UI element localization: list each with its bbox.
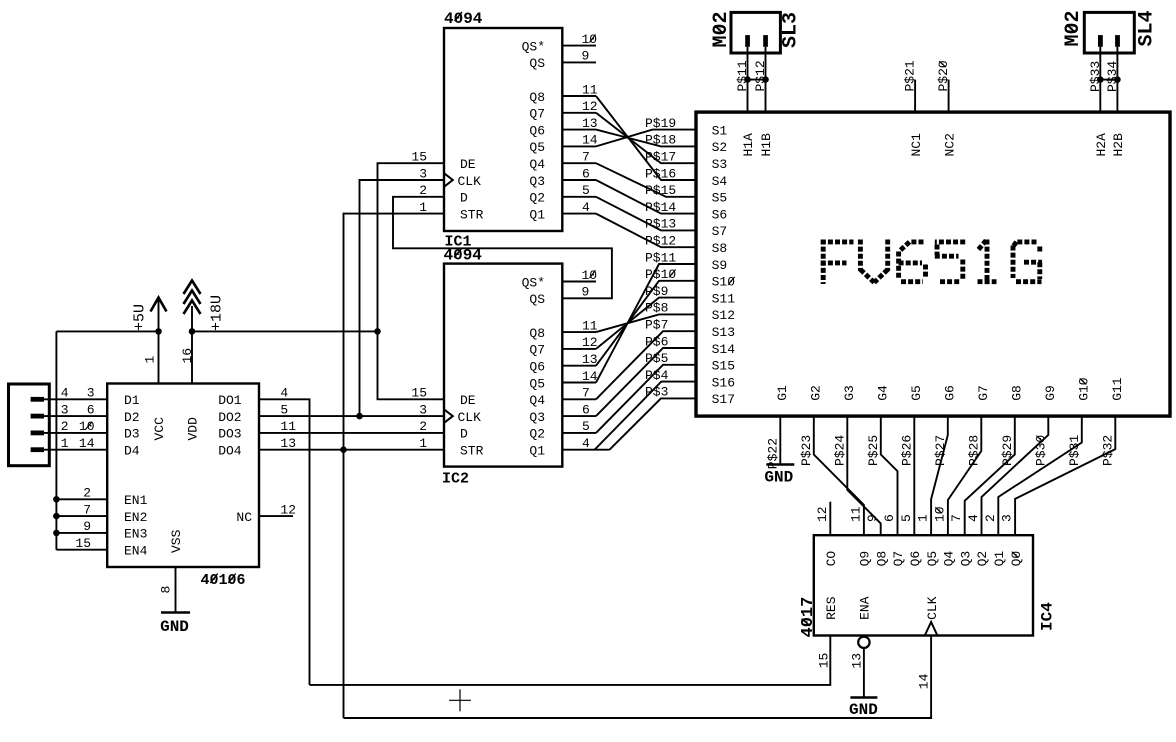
svg-text:4: 4 <box>61 386 69 401</box>
svg-text:P$25: P$25 <box>866 435 881 466</box>
svg-text:P$18: P$18 <box>645 133 676 148</box>
svg-text:EN4: EN4 <box>124 544 148 559</box>
wire display G6 to 4017 Q5 <box>931 416 948 535</box>
+5V arrow symbol <box>151 298 167 312</box>
svg-text:S6: S6 <box>712 207 728 222</box>
svg-text:RES: RES <box>824 596 839 620</box>
svg-text:P$8: P$8 <box>645 301 668 316</box>
svg-text:Q6: Q6 <box>529 360 545 375</box>
display pin H1B (wire from SL3) <box>765 47 767 112</box>
wire IC1 Q8 to S4 (P$16) <box>596 96 696 180</box>
svg-text:P$31: P$31 <box>1067 435 1082 466</box>
svg-text:2: 2 <box>61 419 69 434</box>
ground symbol bar (40106) <box>161 611 190 614</box>
IC2 pin 11 stub (Q8) <box>562 331 596 333</box>
svg-text:EN2: EN2 <box>124 510 147 525</box>
svg-text:Q7: Q7 <box>891 551 906 567</box>
wire connector J1 pin to 40106 D4 <box>44 449 107 451</box>
wire +5V to VCC pin 1 <box>158 298 160 384</box>
IC1 pin 6 stub (Q3) <box>562 179 596 181</box>
junction dot P$11 <box>744 76 751 83</box>
wire +5V to EN1-EN4 (vertical) <box>55 331 57 549</box>
IC1 pin 13 stub (Q6) <box>562 129 596 131</box>
svg-text:5: 5 <box>582 183 590 198</box>
svg-text:4: 4 <box>966 514 981 522</box>
wire IC1 Q7 to S3 (P$17) <box>596 113 696 163</box>
svg-text:GND: GND <box>849 701 878 719</box>
svg-text:P$16: P$16 <box>645 166 676 181</box>
connector SL4 M02 slashed zero <box>1067 25 1076 33</box>
svg-text:4: 4 <box>582 436 590 451</box>
wire IC1 Q6 to S2 (P$18) <box>596 130 696 147</box>
wire IC2 Q7 to S11 (P$9) <box>596 298 696 349</box>
svg-text:Q8: Q8 <box>874 551 889 567</box>
svg-text:D2: D2 <box>124 410 140 425</box>
svg-text:Q3: Q3 <box>529 174 545 189</box>
svg-text:16: 16 <box>180 348 195 364</box>
IC2 pin 10 slashed zero <box>590 270 596 278</box>
wire display G11 to 4017 Q0 <box>1015 416 1115 535</box>
svg-text:Q1: Q1 <box>529 207 545 222</box>
svg-text:GND: GND <box>160 618 189 636</box>
wire 40106 DO1 to 4017 RES <box>259 399 310 685</box>
wire IC2 Q4 to S13 (P$7) <box>596 331 696 399</box>
svg-text:P$32: P$32 <box>1100 435 1115 466</box>
svg-text:P$21: P$21 <box>903 60 918 91</box>
4017 pin 12 stub (CO) <box>829 502 831 536</box>
svg-text:P$7: P$7 <box>645 318 668 333</box>
svg-text:Q5: Q5 <box>925 551 940 567</box>
svg-text:D: D <box>460 427 468 442</box>
svg-text:P$24: P$24 <box>832 435 847 466</box>
svg-text:NC: NC <box>236 510 252 525</box>
svg-text:H1B: H1B <box>759 133 774 157</box>
svg-text:IC2: IC2 <box>442 471 469 488</box>
IC4 4017 slashed zero <box>802 619 811 626</box>
IC2 pin 13 stub (Q6) <box>562 365 596 367</box>
wire IC1 Q1 to S8 (P$12) <box>596 214 696 248</box>
connector J1 pin bar 1 <box>31 397 44 402</box>
display value FV651G (dot matrix) <box>821 240 1042 285</box>
wire IC1 Q4 to S5 (P$15) <box>596 163 696 197</box>
svg-text:IC4: IC4 <box>1039 602 1057 631</box>
svg-text:9: 9 <box>865 514 880 522</box>
svg-text:10: 10 <box>582 32 598 47</box>
svg-text:Q2: Q2 <box>529 191 545 206</box>
jumper wire P$33-P$34 <box>1100 79 1117 81</box>
svg-text:S17: S17 <box>712 392 735 407</box>
wire IC1 Q3 to S6 (P$14) <box>596 180 696 214</box>
svg-text:H2B: H2B <box>1111 133 1126 157</box>
svg-text:H1A: H1A <box>741 133 756 157</box>
svg-text:M02: M02 <box>710 11 733 47</box>
svg-text:Q4: Q4 <box>529 393 545 408</box>
connector SL4 pin bar 1 <box>1098 35 1103 47</box>
svg-text:P$4: P$4 <box>645 368 669 383</box>
svg-text:DO3: DO3 <box>218 427 241 442</box>
svg-text:G4: G4 <box>876 385 891 401</box>
svg-text:11: 11 <box>280 419 296 434</box>
svg-text:DO1: DO1 <box>218 393 242 408</box>
Q0 slashed zero (vertical) <box>1012 552 1019 558</box>
svg-text:P$19: P$19 <box>645 116 676 131</box>
svg-text:STR: STR <box>460 207 484 222</box>
junction dot EN1 <box>53 496 60 503</box>
svg-text:11: 11 <box>582 318 598 333</box>
svg-text:G2: G2 <box>809 385 824 401</box>
svg-text:P$3: P$3 <box>645 385 668 400</box>
svg-text:G7: G7 <box>976 385 991 401</box>
IC2 pin 7 stub (Q4) <box>562 398 596 400</box>
junction dot EN3 <box>53 530 60 537</box>
svg-text:ENA: ENA <box>858 596 873 620</box>
G10 slashed zero (vertical) <box>1080 378 1087 384</box>
svg-text:8: 8 <box>158 586 173 594</box>
svg-text:S4: S4 <box>712 174 728 189</box>
svg-text:5: 5 <box>582 419 590 434</box>
svg-text:10: 10 <box>932 506 947 522</box>
wire IC2 Q3 to S14 (P$6) <box>596 348 696 416</box>
svg-text:SL3: SL3 <box>780 12 803 48</box>
wire IC2 Q6 to S10 (P$10) <box>596 281 696 366</box>
40106 pin 12 stub (NC) <box>259 515 293 517</box>
IC2 pin 6 stub (Q3) <box>562 415 596 417</box>
wire IC2 Q1 to S16 (P$4) <box>595 382 696 450</box>
svg-text:P$6: P$6 <box>645 334 668 349</box>
svg-text:CO: CO <box>824 551 839 567</box>
svg-text:4: 4 <box>582 200 590 215</box>
svg-text:P$33: P$33 <box>1088 61 1103 92</box>
svg-text:4094: 4094 <box>444 247 483 265</box>
svg-text:13: 13 <box>849 653 864 669</box>
svg-text:4: 4 <box>280 386 288 401</box>
connector SL3 pin bar 2 <box>763 35 768 47</box>
svg-text:9: 9 <box>582 49 590 64</box>
IC U1 4094 shift register box (IC1) <box>444 28 562 231</box>
IC2 pin 5 stub (Q2) <box>562 432 596 434</box>
IC2 CLK clock wedge <box>444 409 453 423</box>
svg-text:9: 9 <box>83 519 91 534</box>
svg-text:P$29: P$29 <box>1000 435 1015 466</box>
svg-text:Q8: Q8 <box>529 326 545 341</box>
svg-text:14: 14 <box>917 673 932 689</box>
svg-text:1: 1 <box>419 200 427 215</box>
wire display G10 to 4017 Q1 <box>998 416 1082 535</box>
svg-text:STR: STR <box>460 444 484 459</box>
P$20 slashed zero (vertical) <box>939 61 946 67</box>
ground symbol bar (4017 ENA) <box>850 696 877 699</box>
wire EN chain to EN4 <box>56 549 107 551</box>
wire IC2 Q2 to S15 (P$5) <box>596 365 696 433</box>
svg-text:DO2: DO2 <box>218 410 241 425</box>
svg-text:NC1: NC1 <box>909 133 924 157</box>
svg-text:NC2: NC2 <box>942 133 957 156</box>
wire +18V to IC2 DE (pin 15) <box>378 331 445 399</box>
IC1 pin 4 stub (Q1) <box>562 213 596 215</box>
IC1 pin 14 stub (Q5) <box>562 145 596 147</box>
svg-text:SL4: SL4 <box>1136 10 1159 46</box>
jumper wire P$11-P$12 <box>748 79 766 81</box>
svg-text:1: 1 <box>916 514 931 522</box>
wire display G9 to 4017 Q2 <box>982 416 1049 535</box>
sheet origin cross <box>449 699 471 701</box>
svg-text:S7: S7 <box>712 224 728 239</box>
wire 40106 DO3 to IC2 D <box>259 432 444 434</box>
connector SL4 pin bar 2 <box>1115 35 1120 47</box>
svg-text:DE: DE <box>460 157 476 172</box>
svg-text:Q3: Q3 <box>529 410 545 425</box>
svg-text:S8: S8 <box>712 241 728 256</box>
junction dot CLK net <box>356 413 363 420</box>
svg-text:3: 3 <box>87 386 95 401</box>
P$30 slashed zero (vertical) <box>1036 436 1043 442</box>
svg-text:10: 10 <box>79 419 95 434</box>
svg-text:G6: G6 <box>943 385 958 401</box>
display pin H2B (wire from SL4) <box>1116 47 1118 112</box>
svg-text:9: 9 <box>582 285 590 300</box>
svg-text:S11: S11 <box>712 291 736 306</box>
svg-text:1: 1 <box>61 436 69 451</box>
svg-text:6: 6 <box>87 402 95 417</box>
svg-text:S12: S12 <box>712 308 735 323</box>
svg-text:4094: 4094 <box>444 10 483 28</box>
svg-text:14: 14 <box>79 436 95 451</box>
svg-text:P$9: P$9 <box>645 284 668 299</box>
junction dot +18V rail end <box>374 328 381 335</box>
svg-text:6: 6 <box>582 402 590 417</box>
svg-text:D1: D1 <box>124 393 140 408</box>
svg-text:11: 11 <box>582 82 598 97</box>
svg-text:P$5: P$5 <box>645 351 668 366</box>
svg-text:Q7: Q7 <box>529 343 545 358</box>
junction dot P$34 <box>1114 76 1121 83</box>
connector SL3 M02 slashed zero <box>715 26 724 34</box>
svg-text:7: 7 <box>582 150 590 165</box>
svg-text:12: 12 <box>582 99 598 114</box>
IC U2 4094 shift register box (IC2) <box>444 264 562 467</box>
wire IC2 QS to IC1 D (pin 2) <box>393 197 612 298</box>
svg-text:D4: D4 <box>124 444 140 459</box>
svg-text:G1: G1 <box>775 385 790 401</box>
S10 slashed zero <box>728 277 734 285</box>
svg-text:G9: G9 <box>1043 385 1058 401</box>
svg-text:QS*: QS* <box>522 275 545 290</box>
wire IC1 Q5 to S1 (P$19) <box>596 130 696 147</box>
display pin H2A (wire from SL4) <box>1099 47 1101 112</box>
40106 slashed zeros <box>210 574 217 584</box>
svg-text:P$28: P$28 <box>966 435 981 466</box>
svg-text:10: 10 <box>582 268 598 283</box>
svg-text:Q4: Q4 <box>529 157 545 172</box>
svg-text:CLK: CLK <box>458 410 482 425</box>
svg-text:S16: S16 <box>712 375 735 390</box>
wire display G4 to 4017 Q7 <box>881 416 898 535</box>
wire display G2 to 4017 Q9 <box>814 416 864 535</box>
svg-text:P$14: P$14 <box>645 200 676 215</box>
svg-text:QS: QS <box>529 56 545 71</box>
svg-text:Q2: Q2 <box>529 427 545 442</box>
svg-text:D: D <box>460 191 468 206</box>
junction dot +5V <box>155 328 162 335</box>
svg-text:H2A: H2A <box>1094 133 1109 157</box>
svg-text:Q5: Q5 <box>529 376 545 391</box>
wire connector J1 pin to 40106 D3 <box>44 432 107 434</box>
svg-text:7: 7 <box>83 502 91 517</box>
IC1 pin 5 stub (Q2) <box>562 196 596 198</box>
svg-text:7: 7 <box>582 386 590 401</box>
IC2 pin 4 stub (Q1, extended) <box>562 449 609 451</box>
IC2 pin 10 stub (QS*) <box>562 281 596 283</box>
svg-text:P$12: P$12 <box>753 60 768 91</box>
4017 pin 15 wire (RES) <box>310 636 831 685</box>
IC1 slashed zero in 4094 <box>455 12 462 21</box>
svg-text:S15: S15 <box>712 359 735 374</box>
svg-text:P$11: P$11 <box>735 60 750 91</box>
display pin NC2 stub <box>948 80 950 113</box>
wire 40106 DO2 to IC2 CLK <box>259 415 444 417</box>
svg-text:+18U: +18U <box>208 295 225 331</box>
svg-text:4017: 4017 <box>799 597 818 638</box>
connector SL3 box <box>731 12 780 53</box>
svg-text:G10: G10 <box>1077 377 1092 400</box>
svg-text:Q1: Q1 <box>529 444 545 459</box>
svg-text:VSS: VSS <box>169 529 184 553</box>
wire IC1 Q2 to S7 (P$13) <box>596 197 696 231</box>
svg-text:P$27: P$27 <box>933 435 948 466</box>
IC U4 4017 decade counter box (IC4) <box>814 535 1033 635</box>
svg-text:P$34: P$34 <box>1105 61 1120 92</box>
svg-text:5: 5 <box>899 514 914 522</box>
junction dot +18V <box>189 328 196 335</box>
svg-text:6: 6 <box>582 166 590 181</box>
svg-text:D3: D3 <box>124 427 140 442</box>
4017 pin 13 wire (ENA to GND) <box>863 648 865 698</box>
svg-text:Q6: Q6 <box>529 123 545 138</box>
wire IC2 Q5 to S9 (P$11) <box>596 264 696 383</box>
svg-text:Q5: Q5 <box>529 140 545 155</box>
svg-text:Q3: Q3 <box>958 551 973 567</box>
svg-text:QS: QS <box>529 292 545 307</box>
+18V arrow symbol <box>184 281 201 295</box>
wire +18V rail to DE pins <box>192 330 378 332</box>
IC1 pin 7 stub (Q4) <box>562 162 596 164</box>
connector SL3 pin bar 1 <box>745 35 750 47</box>
svg-text:14: 14 <box>582 133 598 148</box>
4017 ENA inversion bubble <box>858 637 869 648</box>
svg-text:Q4: Q4 <box>942 551 957 567</box>
wire CLK net to IC1 CLK (pin 3) <box>360 180 445 416</box>
svg-text:S5: S5 <box>712 191 728 206</box>
svg-text:Q0: Q0 <box>1009 551 1024 567</box>
svg-text:VCC: VCC <box>152 417 167 441</box>
svg-text:S9: S9 <box>712 258 728 273</box>
display U3 FV651G box <box>696 112 1170 416</box>
svg-text:P$26: P$26 <box>899 435 914 466</box>
svg-text:S10: S10 <box>712 275 735 290</box>
IC1 pin 11 stub (Q8) <box>562 95 596 97</box>
svg-text:P$13: P$13 <box>645 217 676 232</box>
svg-text:S1: S1 <box>712 123 728 138</box>
connector J1 pin bar 2 <box>31 414 44 419</box>
wire display G8 to 4017 Q3 <box>965 416 1015 535</box>
display pin H1A (wire from SL3) <box>747 47 749 112</box>
svg-text:M02: M02 <box>1062 10 1085 46</box>
display pin NC1 stub <box>914 80 916 113</box>
svg-text:P$23: P$23 <box>799 435 814 466</box>
svg-text:+5U: +5U <box>132 304 149 331</box>
connector SL4 box <box>1084 12 1134 53</box>
wire EN chain to EN3 <box>56 532 107 534</box>
connector J1 box <box>9 384 50 466</box>
svg-text:Q2: Q2 <box>975 551 990 567</box>
wire +18V to VDD pin 16 <box>191 306 193 384</box>
junction dot P$33 <box>1097 76 1104 83</box>
svg-text:G11: G11 <box>1110 377 1125 401</box>
connector J1 pin bar 3 <box>31 431 44 436</box>
svg-text:P$15: P$15 <box>645 183 676 198</box>
IC2 pin 14 stub (Q5) <box>562 382 596 384</box>
svg-text:Q1: Q1 <box>992 551 1007 567</box>
svg-text:GND: GND <box>764 469 793 487</box>
svg-text:S3: S3 <box>712 157 728 172</box>
wire connector J1 pin to 40106 D2 <box>44 415 107 417</box>
wire display G7 to 4017 Q4 <box>948 416 981 535</box>
svg-text:1: 1 <box>142 356 157 364</box>
svg-text:13: 13 <box>582 116 598 131</box>
IC1 pin 10 stub (QS*) <box>562 45 596 47</box>
svg-text:12: 12 <box>280 502 296 517</box>
wire connector J1 pin to 40106 D1 <box>44 398 107 400</box>
svg-text:3: 3 <box>61 402 69 417</box>
svg-text:QS*: QS* <box>522 39 545 54</box>
wire +18V to IC1 DE (pin 15) <box>378 163 445 331</box>
wire EN chain to EN2 <box>56 515 107 517</box>
svg-text:S2: S2 <box>712 140 728 155</box>
svg-text:Q9: Q9 <box>858 551 873 567</box>
IC1 pin 10 slashed zero <box>590 35 596 43</box>
svg-text:P$12: P$12 <box>645 234 676 249</box>
svg-text:13: 13 <box>582 352 598 367</box>
4017 pin 10 slashed zero (vertical) <box>935 507 942 513</box>
wire IC2 Q8 to S12 (P$8) <box>596 314 696 332</box>
IC1 pin 12 stub (Q7) <box>562 112 596 114</box>
4017 pin 14 wire (CLK) <box>344 636 932 719</box>
svg-text:15: 15 <box>816 653 831 669</box>
svg-text:Q7: Q7 <box>529 107 545 122</box>
wire display G1 to GND <box>779 416 781 464</box>
P$10 slashed zero <box>669 270 675 278</box>
svg-text:P$17: P$17 <box>645 150 676 165</box>
4017 CLK clock wedge <box>925 622 938 636</box>
svg-text:Q6: Q6 <box>908 551 923 567</box>
svg-text:Q8: Q8 <box>529 90 545 105</box>
wire +5V rail <box>56 330 158 332</box>
svg-text:DO4: DO4 <box>218 444 242 459</box>
svg-text:DE: DE <box>460 393 476 408</box>
svg-text:S13: S13 <box>712 325 735 340</box>
svg-text:EN1: EN1 <box>124 493 148 508</box>
wire STR net vertical to 4017 CLK <box>343 450 345 718</box>
svg-text:15: 15 <box>75 536 91 551</box>
svg-text:VDD: VDD <box>186 417 201 441</box>
IC U5 40106 box <box>107 384 259 568</box>
svg-text:12: 12 <box>582 335 598 350</box>
svg-text:6: 6 <box>882 514 897 522</box>
svg-text:EN3: EN3 <box>124 527 147 542</box>
svg-text:13: 13 <box>280 436 296 451</box>
svg-text:CLK: CLK <box>458 174 482 189</box>
wire 40106 DO4 to IC2 STR <box>259 449 444 451</box>
